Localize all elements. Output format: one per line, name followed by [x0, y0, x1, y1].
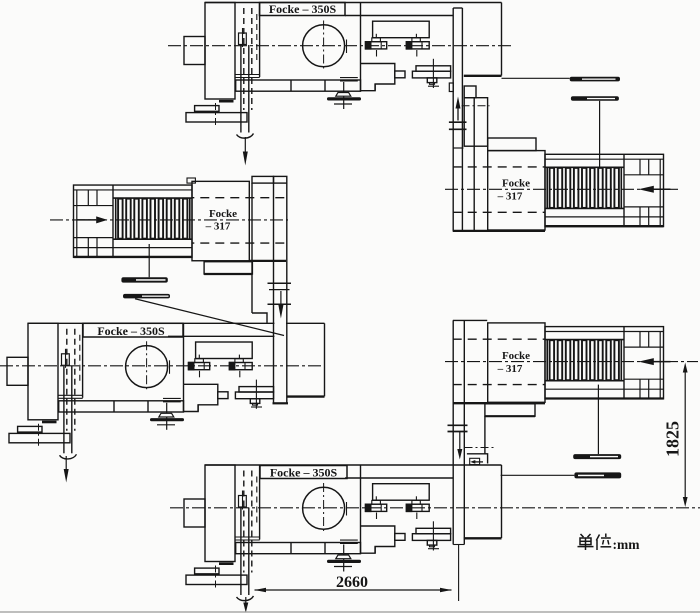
label box machine E — [260, 466, 347, 479]
B column vertical — [473, 98, 475, 231]
B top bar — [488, 138, 536, 151]
C column verticals — [251, 183, 253, 313]
B bottom bold line — [453, 230, 545, 232]
centerline machine E — [170, 507, 700, 509]
machine C: Focke-317 middle-left unit (mirrored) — [74, 181, 285, 260]
B step block right of channel — [464, 86, 476, 98]
riser channel A to B — [452, 8, 454, 231]
centerline machine F — [445, 361, 698, 363]
svg-text::mm: :mm — [613, 537, 641, 552]
down arrow below A channel — [244, 137, 246, 152]
label box machine A — [260, 3, 346, 16]
F cap line — [453, 319, 487, 321]
small block left of channel — [449, 83, 453, 92]
C column caps — [252, 176, 274, 183]
drop line from slats to bar 1 — [597, 385, 599, 455]
outfeed bar 1 — [121, 277, 167, 282]
centerline machine A — [168, 45, 512, 47]
down arrow in column — [280, 291, 282, 305]
svg-text:– 317: – 317 — [497, 363, 523, 375]
outfeed bar 2 — [123, 294, 170, 299]
diagonal transfer line — [135, 299, 284, 336]
dimension line 2660 — [255, 589, 452, 591]
up arrow in channel — [457, 109, 459, 121]
down arrow below D channel — [65, 456, 67, 469]
svg-text:– 317: – 317 — [205, 221, 231, 233]
centerline machine B — [445, 188, 681, 190]
C body bottom bold — [249, 260, 286, 262]
machine F: Focke-317 right-middle unit — [453, 323, 664, 402]
single extension line below channel — [458, 545, 460, 602]
step path to E block — [467, 454, 488, 464]
bottom scan edge — [0, 611, 700, 613]
svg-text:Focke – 350S: Focke – 350S — [97, 324, 165, 338]
down arrow in channel — [459, 432, 461, 450]
dash-dot inside tall rect — [462, 105, 490, 107]
column cross ticks — [268, 282, 292, 284]
C step block below body — [204, 262, 252, 274]
svg-text:Focke: Focke — [209, 208, 237, 220]
svg-text:2660: 2660 — [336, 574, 368, 591]
pusher bar 1 — [570, 77, 620, 82]
column step to D body — [252, 313, 267, 323]
B column horizontal — [453, 147, 464, 149]
B tall rect — [464, 98, 487, 147]
machine A: Focke-350S top unit — [184, 3, 502, 139]
centerline machine D — [0, 365, 325, 367]
column bottom bold — [273, 402, 289, 404]
pusher bar 1 — [573, 454, 621, 459]
label box machine D — [83, 323, 183, 337]
column below step — [484, 416, 486, 454]
dimension line 1825 — [684, 366, 686, 504]
svg-text:– 317: – 317 — [497, 191, 523, 203]
machine B: Focke-317 top-right unit — [453, 151, 664, 230]
B infeed arrow — [654, 188, 671, 190]
单 — [581, 534, 584, 537]
pusher bar 2 — [574, 472, 621, 478]
link line A to pusher bars — [502, 77, 570, 79]
drop line from bar 2 to conveyor — [599, 101, 601, 168]
svg-text:Focke: Focke — [502, 178, 530, 190]
svg-text:Focke – 350S: Focke – 350S — [270, 465, 338, 479]
svg-text:Focke – 350S: Focke – 350S — [269, 2, 337, 16]
short dash-dot line — [465, 447, 496, 449]
centerline machine C — [50, 219, 288, 221]
位 — [596, 535, 599, 541]
F left column verticals — [452, 320, 454, 544]
machine D: Focke-350S middle-left unit — [7, 323, 325, 459]
small feed arrow — [474, 461, 483, 463]
F infeed arrow — [654, 361, 671, 363]
F bottom step block — [485, 404, 535, 416]
drop line from slats to bar 1 — [148, 244, 150, 277]
down arrow below E channel — [245, 597, 247, 603]
C infeed arrow — [77, 219, 96, 221]
channel cross ticks — [448, 424, 468, 426]
machine E: Focke-350S bottom unit — [184, 465, 502, 601]
link line from E block to bar 2 — [501, 474, 575, 476]
F bottom bold line — [453, 402, 545, 404]
white cover over D top under column — [274, 316, 286, 402]
pusher bar 2 — [571, 96, 619, 101]
unit note 单位:mm — [578, 534, 612, 551]
channel cross ticks — [449, 121, 467, 123]
svg-text:1825: 1825 — [663, 421, 683, 457]
svg-text:Focke: Focke — [502, 350, 530, 362]
